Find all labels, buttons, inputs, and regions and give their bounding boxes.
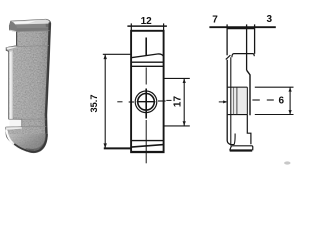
svg-text:6: 6 <box>279 95 285 106</box>
3D view: boot bright crescent <box>7 131 29 152</box>
dimension 6 line <box>289 87 291 114</box>
front top groove slant <box>131 54 163 58</box>
centerline arrowhead <box>223 100 228 103</box>
side top dimension line 7 / 3 <box>209 26 275 28</box>
hole interior tint <box>232 88 247 114</box>
hole axis centerline right dashes <box>252 99 259 101</box>
dimension 12 <box>127 23 166 31</box>
side cap inner edge + tick <box>246 24 248 70</box>
front bottom groove line <box>131 140 164 142</box>
dimension 6 extension lines <box>255 86 294 88</box>
3D view: cap face shading <box>9 19 50 31</box>
svg-text:7: 7 <box>212 15 218 26</box>
3D view: ledge highlight at top of main body <box>6 46 16 50</box>
svg-text:17: 17 <box>172 96 183 108</box>
front bottom edge thick <box>131 151 164 153</box>
side right jog under cap <box>247 70 250 115</box>
foot right end <box>251 146 254 151</box>
thread inner circle <box>138 94 155 111</box>
3D view: neck left dark edge <box>16 32 18 46</box>
svg-text:3: 3 <box>267 14 273 25</box>
side cap right edge + tick <box>254 24 256 53</box>
3D view: notch bottom dark edge at ledge <box>7 46 17 48</box>
hole end edge <box>246 87 248 114</box>
horizontal centerline of hole <box>129 101 134 103</box>
3D view: left chamfer highlight strip <box>9 51 12 120</box>
front groove line a <box>131 61 164 63</box>
front groove line b <box>131 65 164 67</box>
front bottom slant <box>131 145 164 148</box>
svg-text:35.7: 35.7 <box>89 95 99 113</box>
faint smudge bottom right <box>284 161 290 164</box>
side left edge (outer) <box>227 60 231 145</box>
hole thread line b <box>236 87 238 114</box>
foot left diagonal <box>230 146 232 151</box>
side left edge (inner rib) <box>230 57 232 145</box>
3D view: cast grain texture <box>9 18 51 154</box>
side cap bottom edge <box>232 54 254 58</box>
side cap left edge + tick <box>226 24 228 55</box>
thread outer circle <box>135 91 157 113</box>
3D view: boot dark rim <box>14 134 47 152</box>
3D view: cap underside light line <box>10 30 17 33</box>
3D view: dark right edge <box>40 23 51 151</box>
front body outline <box>131 31 164 152</box>
3D view: foot top highlight <box>6 127 22 130</box>
hole hidden top edge <box>228 86 248 88</box>
foot top edge <box>231 145 252 147</box>
hole axis centerline left with arrow <box>219 101 225 103</box>
dimension 35.7 <box>103 54 131 148</box>
3D view: bottom boot shading <box>7 134 48 157</box>
3D view: faint step lines across body <box>6 31 49 127</box>
3D view: top cap left dark edge <box>9 21 16 31</box>
3D photo view: part silhouette <box>6 19 51 152</box>
3D view: top bright surface <box>11 20 49 25</box>
side bottom notch right arm <box>231 134 235 145</box>
hole hidden bottom edge <box>228 114 248 116</box>
vertical centerline <box>145 38 147 56</box>
side right edge below hole <box>247 115 251 145</box>
side cap top edge <box>227 28 255 30</box>
side left chamfer under cap <box>226 55 231 59</box>
foot bottom edge <box>230 149 253 151</box>
dimension 17 <box>164 78 190 126</box>
hole thread line a <box>233 87 235 114</box>
3D view: bottom notch bright <box>10 120 22 127</box>
svg-text:12: 12 <box>141 16 153 27</box>
